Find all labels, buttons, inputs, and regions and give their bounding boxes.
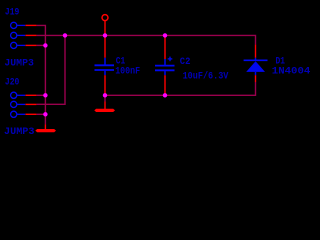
- wire: ground rail from C1 to D1 bottom: [105, 82, 256, 95]
- C1 bottom lead: [104, 71, 106, 75]
- J19 pin 1 circle: [11, 22, 17, 28]
- svg-text:10uF/6.3V: 10uF/6.3V: [183, 71, 229, 83]
- C2 bottom lead: [164, 71, 166, 75]
- D1 bottom lead: [255, 72, 257, 75]
- wire: J20 pin3 stub to vertical: [36, 113, 45, 115]
- ground pin (red): [44, 124, 46, 129]
- C2 top pin (red): [164, 35, 166, 59]
- C1 top plate: [95, 64, 115, 66]
- svg-text:C2: C2: [180, 57, 191, 68]
- node: C1 bottom on ground rail: [103, 93, 107, 97]
- J20 pin red stubs: [25, 95, 36, 114]
- node: C2 bottom on ground rail: [163, 93, 167, 97]
- power port pin: [104, 21, 106, 36]
- D1 cathode bar: [244, 59, 268, 61]
- svg-text:J20: J20: [5, 78, 20, 89]
- C2 plus sign: [168, 57, 173, 62]
- wire: ground vertical x=45.4 down to ground symbol: [44, 45, 46, 124]
- wire: C1 node down to ground symbol: [104, 95, 106, 101]
- D1 anode triangle: [246, 61, 265, 72]
- C2 bottom pin (red): [164, 75, 166, 93]
- ground symbol under C1: bar: [94, 109, 115, 112]
- junction dots: [43, 33, 167, 116]
- power port (red circle): [102, 15, 108, 21]
- wire: branch from power rail down to J20 pin2: [36, 35, 65, 104]
- wire: J20 pin1 stub to ground vertical: [36, 94, 45, 96]
- node: C2 top: [163, 33, 167, 37]
- C1 top lead: [104, 58, 106, 65]
- J20 pin 3 circle: [11, 111, 17, 117]
- D1 bottom pin (red): [255, 75, 257, 82]
- C2 top plate: [155, 65, 175, 67]
- C1 bottom plate: [95, 69, 115, 71]
- C1 top pin (red): [104, 35, 106, 57]
- wire: J19 pin3 to junction: [36, 44, 45, 46]
- C2 bottom plate: [155, 69, 175, 71]
- J19 pin 2 circle: [11, 32, 17, 38]
- J19 pin 3 circle: [11, 42, 17, 48]
- C1 bottom pin (red): [104, 75, 106, 95]
- wire: J19 pin1 over to vertical: [36, 25, 45, 45]
- node: J19 pins 1+3 junction: [43, 43, 47, 47]
- node: ground rail + J20 pin1: [43, 93, 47, 97]
- C2 top lead: [164, 59, 166, 65]
- node: J20 pin3: [43, 112, 47, 116]
- J19 pin red stubs: [25, 25, 36, 45]
- node: power + C1 top: [103, 33, 107, 37]
- D1 top pin (red): [255, 45, 257, 58]
- svg-text:J19: J19: [5, 8, 20, 19]
- svg-text:JUMP3: JUMP3: [4, 127, 35, 138]
- J20 pin 2 circle: [11, 101, 17, 107]
- svg-text:JUMP3: JUMP3: [4, 58, 34, 69]
- connector J20: [11, 92, 26, 117]
- D1 top lead: [255, 58, 257, 61]
- svg-text:1N4004: 1N4004: [272, 66, 311, 77]
- connector J19: [11, 22, 26, 48]
- svg-text:100nF: 100nF: [115, 67, 140, 78]
- J20 pin 1 circle: [11, 92, 17, 98]
- node: branch to J20 pin2: [63, 33, 67, 37]
- ground symbol under C1: pin: [104, 102, 106, 110]
- wire: main power rail y=35.4 from J19 pin2 to D1 top corner: [36, 35, 255, 44]
